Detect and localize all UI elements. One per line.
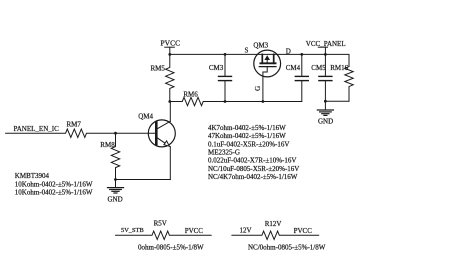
svg-text:RM16: RM16 [330,64,348,72]
svg-text:NC/0ohm-0805-±5%-1/8W: NC/0ohm-0805-±5%-1/8W [248,243,326,251]
svg-text:5V_STB: 5V_STB [121,227,144,234]
svg-text:0.1uF-0402-X5R-±20%-16V: 0.1uF-0402-X5R-±20%-16V [208,141,289,149]
svg-text:0.022uF-0402-X7R-±10%-16V: 0.022uF-0402-X7R-±10%-16V [208,157,296,165]
svg-text:4K7ohm-0402-±5%-1/16W: 4K7ohm-0402-±5%-1/16W [208,124,286,132]
svg-text:PANEL_EN_IC: PANEL_EN_IC [14,125,60,133]
svg-text:NC/10uF-0805-X5R-±20%-16V: NC/10uF-0805-X5R-±20%-16V [208,165,299,173]
svg-text:KMBT3904: KMBT3904 [15,172,50,180]
svg-text:PVCC: PVCC [161,39,181,48]
svg-text:CM3: CM3 [209,64,224,72]
svg-text:PVCC: PVCC [294,227,313,235]
svg-text:12V: 12V [240,227,252,235]
svg-text:NC/4K7ohm-0402-±5%-1/16W: NC/4K7ohm-0402-±5%-1/16W [208,173,298,181]
svg-text:CM4: CM4 [286,64,301,72]
svg-text:QM4: QM4 [138,113,153,121]
svg-text:CM5: CM5 [311,64,326,72]
svg-text:RM5: RM5 [151,64,166,72]
svg-text:RM6: RM6 [183,91,198,99]
svg-text:0ohm-0805-±5%-1/8W: 0ohm-0805-±5%-1/8W [138,243,204,251]
svg-text:VCC_PANEL: VCC_PANEL [306,40,346,48]
svg-text:PVCC: PVCC [185,227,204,235]
svg-text:R12V: R12V [265,220,282,228]
svg-text:10Kohm-0402-±5%-1/16W: 10Kohm-0402-±5%-1/16W [15,188,93,196]
svg-text:RM8: RM8 [100,141,115,149]
svg-text:GND: GND [318,117,333,125]
svg-text:47Kohm-0402-±5%-1/16W: 47Kohm-0402-±5%-1/16W [208,132,286,140]
svg-text:RM7: RM7 [67,121,82,129]
svg-text:R5V: R5V [154,220,167,228]
svg-text:D: D [286,47,291,55]
svg-text:10Kohm-0402-±5%-1/16W: 10Kohm-0402-±5%-1/16W [15,180,93,188]
svg-text:S: S [245,46,249,54]
svg-text:QM3: QM3 [253,41,268,49]
svg-text:GND: GND [108,196,123,204]
svg-text:G: G [254,86,262,91]
svg-text:ME2325-G: ME2325-G [208,149,240,157]
